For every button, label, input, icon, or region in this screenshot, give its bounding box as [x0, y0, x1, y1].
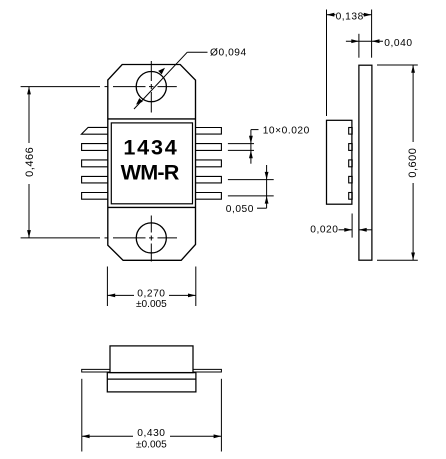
svg-text:10×0.020: 10×0.020 [263, 126, 310, 137]
svg-text:0,020: 0,020 [310, 225, 338, 236]
svg-text:0,138: 0,138 [336, 12, 364, 23]
svg-text:±0.005: ±0.005 [136, 299, 167, 310]
svg-text:0,050: 0,050 [226, 204, 254, 215]
svg-text:0,430: 0,430 [137, 428, 165, 439]
svg-text:WM-R: WM-R [121, 159, 180, 184]
svg-text:1434: 1434 [123, 134, 178, 159]
svg-text:0,600: 0,600 [407, 148, 419, 178]
svg-text:0,270: 0,270 [137, 288, 165, 299]
svg-text:0,466: 0,466 [24, 147, 36, 177]
svg-text:0,040: 0,040 [384, 38, 412, 49]
svg-text:±0.005: ±0.005 [136, 439, 167, 450]
svg-text:Ø0,094: Ø0,094 [210, 47, 247, 58]
